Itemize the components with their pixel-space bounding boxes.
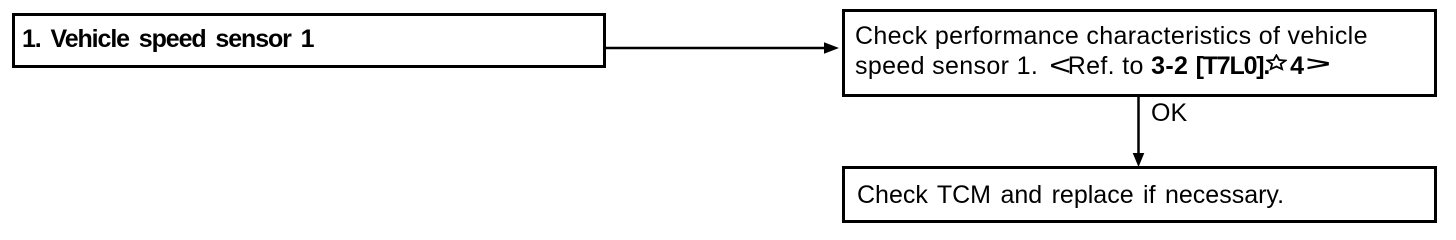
label: step 1 text bbox=[22, 24, 313, 54]
box: check performance characteristics bbox=[842, 9, 1437, 97]
box: check TCM bbox=[842, 166, 1437, 223]
label: OK bbox=[1151, 98, 1187, 128]
box: step 1 (vehicle speed sensor) bbox=[12, 13, 606, 68]
label: check TCM text bbox=[857, 180, 1284, 210]
wire: box2 to box3 vertical arrow (OK branch) bbox=[1133, 96, 1145, 167]
label: check performance text bbox=[855, 21, 1368, 81]
wire: box1 to box2 horizontal arrow bbox=[605, 42, 839, 54]
